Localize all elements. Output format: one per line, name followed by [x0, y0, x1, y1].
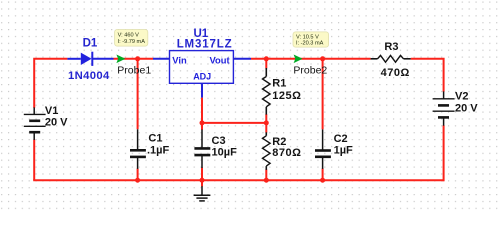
svg-text:Vout: Vout [209, 55, 229, 66]
wire R2 top stub [265, 123, 267, 133]
wire V1- down to bottom rail [33, 140, 35, 181]
wire bottom rail [33, 179, 443, 181]
capacitor C2 [315, 129, 331, 169]
wire top-left from V1+ to D1 anode [34, 59, 67, 108]
svg-text:V: 10.5 V: V: 10.5 V [296, 35, 319, 41]
svg-text:D1: D1 [83, 38, 98, 50]
diode D1 [67, 52, 113, 66]
svg-text:Probe1: Probe1 [117, 65, 151, 77]
capacitor C1 [130, 129, 146, 169]
svg-text:ADJ: ADJ [193, 72, 211, 82]
svg-text:.1µF: .1µF [147, 144, 170, 156]
svg-text:C1: C1 [148, 133, 162, 145]
junction node C2 bottom [320, 178, 325, 183]
wire C3 bottom stub [201, 168, 203, 181]
op-amp regulator U1 LM317LZ [153, 51, 251, 98]
junction node C3/ground [200, 178, 205, 183]
probe Probe2 arrow [294, 55, 303, 64]
svg-text:1µF: 1µF [334, 145, 353, 157]
wire C3 top stub [201, 123, 203, 130]
resistor R1 [263, 68, 271, 115]
svg-text:I: -20.3 mA: I: -20.3 mA [296, 41, 324, 47]
svg-text:870Ω: 870Ω [272, 147, 301, 159]
wire ADJ node to R1/R2 node [202, 122, 266, 124]
battery V2 [433, 91, 455, 125]
svg-text:R1: R1 [272, 78, 286, 90]
svg-text:20 V: 20 V [45, 117, 68, 129]
wire C2 bottom stub [322, 169, 324, 181]
wire R3 right to V2 top [411, 59, 444, 92]
wire R1 bottom stub [265, 114, 267, 123]
wire D1 cathode to U1 Vin [114, 58, 154, 60]
svg-text:10µF: 10µF [212, 147, 238, 159]
svg-text:LM317LZ: LM317LZ [177, 39, 233, 51]
svg-text:R3: R3 [384, 41, 398, 53]
wire V2- down to bottom rail [443, 125, 445, 181]
svg-text:V1: V1 [45, 105, 58, 117]
junction node C1 bottom [135, 178, 140, 183]
wire C1 top drop [137, 59, 139, 130]
svg-text:Probe2: Probe2 [293, 65, 327, 77]
svg-text:V: 460 V: V: 460 V [118, 33, 140, 39]
probe Probe1 readout box [115, 30, 148, 47]
battery V1 [24, 107, 46, 139]
junction node at C2 top [320, 56, 325, 61]
svg-text:C2: C2 [334, 133, 348, 145]
svg-text:C3: C3 [212, 135, 226, 147]
capacitor C3 [194, 130, 210, 169]
resistor R3 [371, 55, 411, 62]
wire C1 bottom stub [137, 169, 139, 181]
wire R1 top stub [265, 59, 267, 69]
ground [194, 186, 211, 201]
svg-text:V2: V2 [455, 91, 468, 103]
svg-text:Vin: Vin [172, 55, 187, 66]
junction node at R1/R2 [264, 120, 269, 125]
probe Probe1 arrow [116, 55, 125, 64]
svg-text:470Ω: 470Ω [381, 67, 410, 79]
resistor R2 [263, 132, 271, 170]
svg-text:1N4004: 1N4004 [68, 70, 110, 82]
junction node at Vout/R1 [264, 56, 269, 61]
wire C2 top drop [322, 59, 324, 130]
svg-text:I: -9.79 mA: I: -9.79 mA [118, 39, 146, 45]
wire R2 bottom stub [265, 170, 267, 181]
wire U1 ADJ drop to node [201, 98, 203, 123]
junction node at D1/C1/U1 [135, 56, 140, 61]
junction node at ADJ/C3 [200, 120, 205, 125]
wire ground stub below rail [201, 180, 203, 186]
junction node R2 bottom [264, 178, 269, 183]
svg-text:20 V: 20 V [455, 103, 478, 115]
probe Probe2 readout box [293, 32, 329, 47]
wire U1 Vout to R3 and top-right corner to V2 [251, 58, 371, 60]
svg-text:125Ω: 125Ω [272, 90, 301, 102]
